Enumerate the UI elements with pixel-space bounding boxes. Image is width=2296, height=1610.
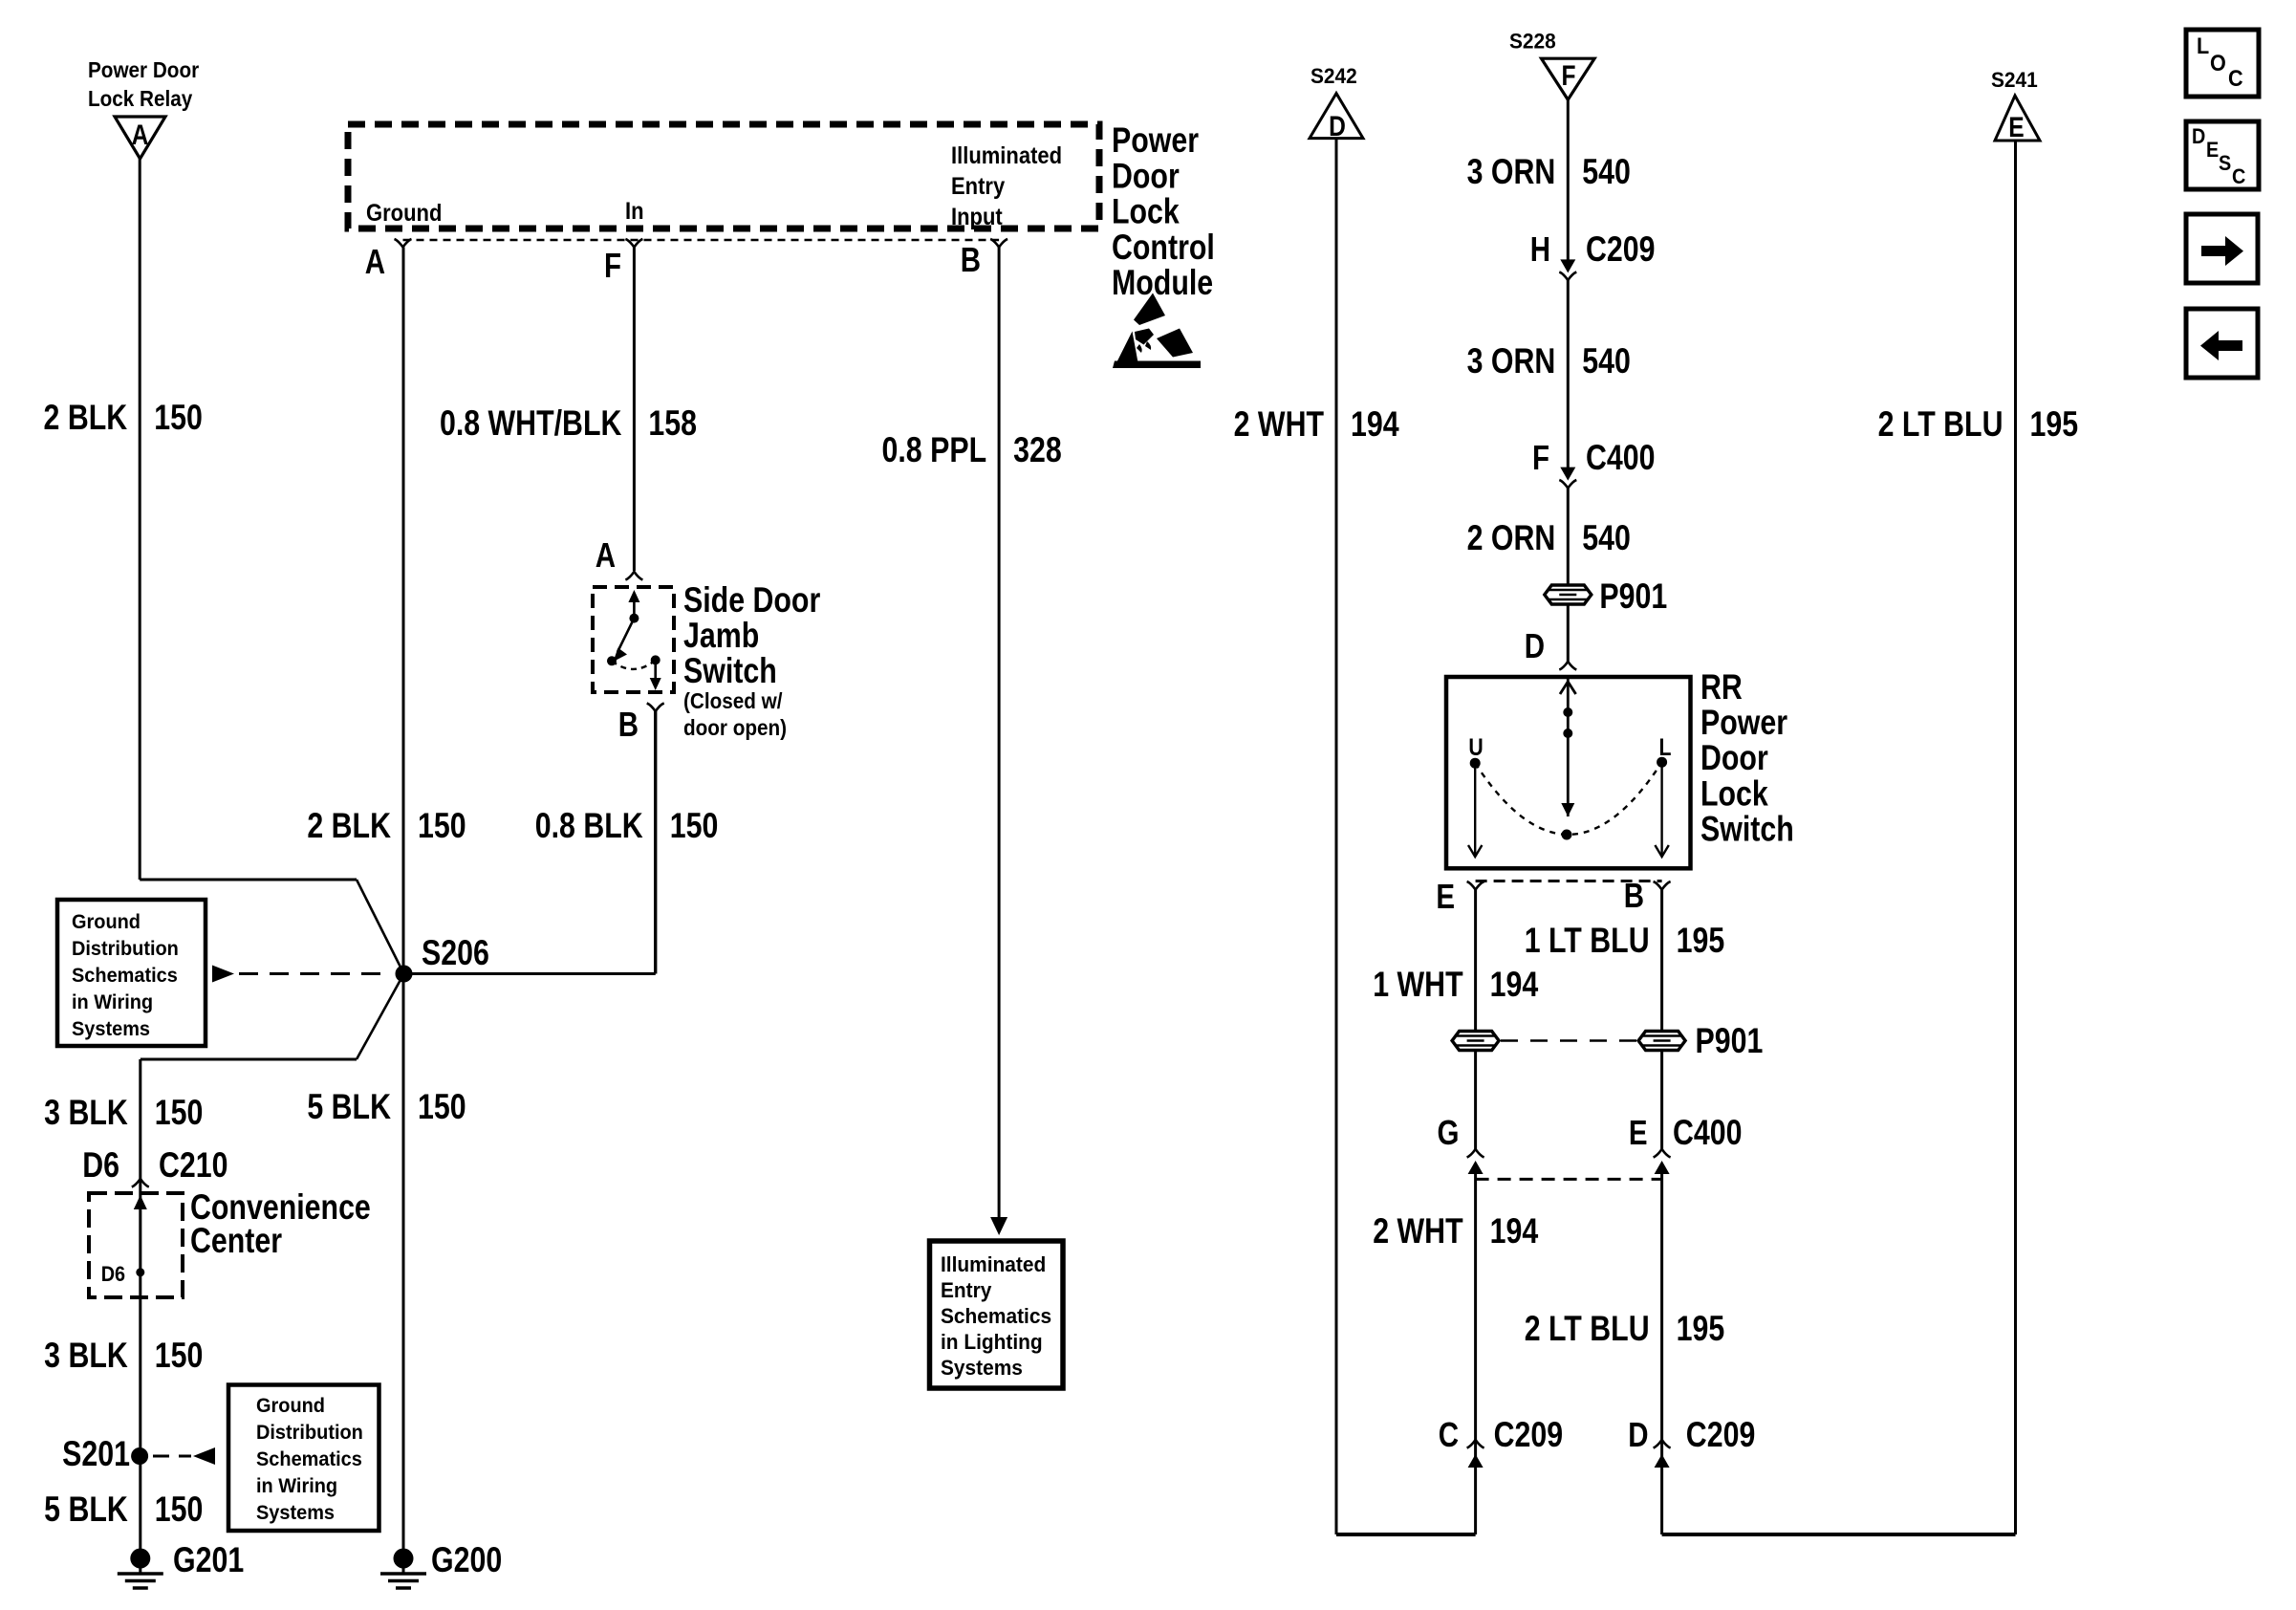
wire 2 BLK 150 from relay — [139, 159, 141, 880]
svg-text:150: 150 — [155, 1093, 204, 1133]
svg-text:194: 194 — [1490, 965, 1539, 1005]
svg-text:D: D — [1329, 110, 1346, 142]
switch name RR Power Door Lock Switch — [1700, 667, 1794, 849]
svg-text:S: S — [2219, 152, 2231, 175]
svg-text:Distribution: Distribution — [72, 938, 179, 961]
module name Power Door Lock Control Module — [1112, 120, 1215, 303]
convenience center internal wire and D6 dot — [101, 1195, 147, 1286]
svg-text:Lock: Lock — [1700, 773, 1768, 814]
svg-text:D: D — [2192, 125, 2205, 148]
svg-text:Schematics: Schematics — [72, 965, 178, 988]
bus S242 to E wire — [1336, 1533, 1476, 1536]
svg-text:Control: Control — [1112, 228, 1215, 268]
svg-text:Distribution: Distribution — [256, 1422, 363, 1445]
module pin F — [604, 239, 642, 285]
svg-text:150: 150 — [155, 1336, 204, 1376]
label 2 LT BLU 195 (B wire) — [1525, 1309, 1725, 1349]
jamb switch contacts and arm — [607, 590, 661, 690]
grommet P901 (S228 wire) — [1545, 577, 1667, 617]
LOC box — [2186, 30, 2259, 97]
svg-text:P901: P901 — [1696, 1021, 1764, 1061]
svg-text:S241: S241 — [1991, 69, 2038, 93]
svg-text:3 BLK: 3 BLK — [44, 1336, 128, 1376]
svg-text:C400: C400 — [1673, 1113, 1743, 1153]
module label Illuminated Entry Input — [951, 142, 1062, 230]
switch pin D — [1525, 626, 1577, 669]
wire P901 to switch pin D — [1567, 605, 1570, 663]
svg-text:1 LT BLU: 1 LT BLU — [1525, 921, 1650, 961]
svg-text:F: F — [1532, 438, 1549, 476]
svg-text:C: C — [2232, 165, 2245, 188]
svg-text:Schematics: Schematics — [941, 1305, 1051, 1329]
svg-text:(Closed w/: (Closed w/ — [683, 688, 782, 713]
label 2 LT BLU 195 (S241) — [1878, 404, 2079, 445]
ground G201 — [118, 1540, 244, 1588]
label 3 BLK 150 — [44, 1093, 203, 1133]
svg-text:D6: D6 — [101, 1263, 125, 1286]
side door jamb switch box — [593, 587, 674, 692]
svg-text:E: E — [1436, 877, 1455, 915]
svg-text:Ground: Ground — [366, 200, 442, 227]
svg-text:B: B — [618, 705, 639, 743]
svg-text:In: In — [625, 198, 644, 225]
switch pin E — [1436, 877, 1484, 915]
splice S241 triangle E — [1991, 69, 2040, 143]
switch contact L — [1655, 733, 1671, 857]
module pin B — [961, 239, 1007, 279]
svg-text:Door: Door — [1112, 156, 1180, 196]
svg-text:Power Door: Power Door — [88, 57, 200, 82]
label 0.8 BLK 150 — [535, 806, 719, 846]
inline connector C209 pins C / D — [1439, 1415, 1563, 1468]
wire jamb switch B to S206 (0.8 BLK 150) — [654, 711, 657, 974]
wire module pin B down (0.8 PPL 328) — [990, 248, 1007, 1236]
svg-text:S228: S228 — [1509, 30, 1556, 54]
svg-text:G201: G201 — [173, 1540, 244, 1580]
svg-text:Door: Door — [1700, 738, 1768, 778]
svg-text:150: 150 — [418, 1087, 466, 1127]
jamb switch pin B — [618, 704, 664, 744]
svg-text:Illuminated: Illuminated — [941, 1253, 1046, 1277]
jamb switch note (Closed w/ door open) — [683, 688, 787, 740]
svg-text:Power: Power — [1112, 120, 1199, 161]
svg-text:P901: P901 — [1599, 577, 1667, 617]
svg-text:1 WHT: 1 WHT — [1373, 965, 1463, 1005]
svg-text:5 BLK: 5 BLK — [44, 1490, 128, 1530]
power door lock control module box — [348, 124, 1099, 228]
label 0.8 WHT/BLK 158 — [440, 403, 697, 444]
label 5 BLK 150 (G201 leg) — [44, 1490, 203, 1530]
svg-text:195: 195 — [1677, 921, 1725, 961]
svg-text:150: 150 — [155, 1490, 204, 1530]
svg-text:door open): door open) — [683, 715, 787, 740]
svg-text:150: 150 — [418, 806, 466, 846]
wire module pin F to jamb switch (0.8 WHT/BLK 158) — [633, 248, 636, 572]
dashed pointer S201 to box — [153, 1447, 215, 1465]
label 3 BLK 150 (below convenience center) — [44, 1336, 203, 1376]
wire S228 down (3 ORN 540) — [1567, 99, 1570, 260]
ground G200 — [380, 1540, 502, 1588]
svg-text:Center: Center — [190, 1221, 282, 1261]
svg-text:D: D — [1628, 1415, 1648, 1453]
dashed line between P901 grommets — [1501, 1021, 1763, 1061]
svg-text:A: A — [132, 119, 149, 151]
switch pin B — [1624, 876, 1671, 914]
svg-text:G200: G200 — [431, 1540, 502, 1580]
svg-text:158: 158 — [648, 403, 697, 444]
svg-text:2 LT BLU: 2 LT BLU — [1878, 404, 2004, 445]
label 3 ORN 540 (second) — [1467, 341, 1631, 381]
wire (2 ORN 540) to P901 — [1567, 489, 1570, 585]
svg-text:195: 195 — [1677, 1309, 1725, 1349]
node S201 — [62, 1434, 148, 1474]
wire E to C400 — [1474, 1051, 1477, 1149]
svg-text:C400: C400 — [1586, 438, 1656, 478]
svg-text:S242: S242 — [1310, 65, 1357, 89]
svg-text:F: F — [1561, 59, 1575, 92]
svg-text:Switch: Switch — [683, 651, 777, 691]
svg-text:E: E — [2008, 111, 2024, 143]
svg-text:F: F — [604, 246, 621, 284]
svg-text:in Lighting: in Lighting — [941, 1331, 1043, 1355]
dashed pointer box to S206 — [212, 966, 391, 983]
svg-text:Lock Relay: Lock Relay — [88, 86, 193, 111]
wire (3 ORN 540) to C400 — [1567, 280, 1570, 469]
module pin label Ground — [366, 200, 442, 227]
svg-text:Systems: Systems — [256, 1502, 335, 1525]
connector C210 pin D6 — [82, 1145, 227, 1186]
grommet P901 (E wire) — [1452, 1032, 1499, 1051]
label 2 WHT 194 (E wire) — [1373, 1211, 1538, 1251]
svg-text:A: A — [365, 242, 385, 280]
label 5 BLK 150 (A wire lower) — [307, 1087, 466, 1127]
label 2 WHT 194 — [1234, 404, 1399, 445]
back arrow box — [2186, 309, 2258, 378]
svg-text:194: 194 — [1351, 404, 1399, 445]
svg-text:in Wiring: in Wiring — [256, 1475, 337, 1498]
convenience center name — [190, 1187, 371, 1261]
svg-text:C: C — [2228, 65, 2243, 91]
grommet P901 (B wire) — [1638, 1032, 1685, 1051]
svg-text:E: E — [2206, 139, 2219, 162]
switch connector dashed line — [1476, 880, 1662, 882]
svg-text:in Wiring: in Wiring — [72, 991, 153, 1014]
svg-text:Jamb: Jamb — [683, 616, 759, 656]
svg-text:Side Door: Side Door — [683, 580, 820, 620]
svg-text:150: 150 — [154, 398, 203, 438]
module pin A — [365, 239, 412, 281]
svg-text:Ground: Ground — [72, 911, 141, 934]
module connector dashed line — [403, 239, 1000, 242]
label 3 ORN 540 — [1467, 152, 1631, 192]
label 0.8 PPL 328 — [882, 430, 1062, 470]
switch contact U — [1468, 733, 1484, 857]
wire switch E down (1 WHT 194) — [1474, 890, 1477, 1032]
svg-text:C: C — [1439, 1415, 1459, 1453]
ground distribution schematics box (upper) — [57, 900, 206, 1046]
svg-text:C209: C209 — [1686, 1415, 1756, 1455]
svg-text:0.8 BLK: 0.8 BLK — [535, 806, 643, 846]
wire module pin A to G200 (2 BLK / 5 BLK 150) — [402, 248, 405, 1558]
svg-text:2 LT BLU: 2 LT BLU — [1525, 1309, 1650, 1349]
svg-text:Systems: Systems — [941, 1357, 1023, 1381]
svg-text:D: D — [1525, 626, 1545, 664]
module pin label In — [625, 198, 644, 225]
wire S206 branch to 3 BLK leg — [141, 974, 404, 1457]
svg-text:L: L — [2197, 33, 2209, 58]
svg-text:3 BLK: 3 BLK — [44, 1093, 128, 1133]
svg-text:H: H — [1530, 229, 1550, 268]
power door lock relay triangle A — [115, 117, 165, 159]
svg-text:540: 540 — [1582, 341, 1631, 381]
svg-text:Power: Power — [1700, 703, 1787, 743]
svg-text:2 ORN: 2 ORN — [1467, 518, 1556, 558]
node S206 — [396, 933, 489, 982]
switch dashed arc — [1475, 762, 1661, 835]
svg-text:S201: S201 — [62, 1434, 130, 1474]
convenience center box — [89, 1193, 183, 1297]
ESD sensitive device symbol — [1113, 294, 1201, 369]
svg-text:S206: S206 — [422, 933, 489, 973]
dashed line under C400 — [1476, 1178, 1662, 1181]
svg-text:Entry: Entry — [951, 173, 1005, 200]
svg-text:328: 328 — [1013, 430, 1062, 470]
svg-text:540: 540 — [1582, 152, 1631, 192]
svg-text:A: A — [596, 535, 616, 574]
jamb switch pin A — [596, 535, 643, 579]
bus D wire to S241 — [1662, 1533, 2016, 1536]
DESC box — [2186, 121, 2259, 189]
svg-text:2 BLK: 2 BLK — [307, 806, 391, 846]
svg-text:D6: D6 — [82, 1145, 119, 1186]
svg-text:Module: Module — [1112, 263, 1213, 303]
svg-text:2 WHT: 2 WHT — [1373, 1211, 1463, 1251]
RR power door lock switch box — [1446, 677, 1691, 868]
svg-text:Entry: Entry — [941, 1279, 991, 1303]
svg-text:Ground: Ground — [256, 1395, 325, 1418]
splice S228 triangle F — [1509, 30, 1594, 99]
forward arrow box — [2186, 214, 2258, 283]
wire S201 to G201 — [139, 1456, 141, 1557]
svg-text:RR: RR — [1700, 667, 1743, 707]
wire B to C400 — [1660, 1051, 1663, 1149]
switch internal common line with arrows and dots — [1560, 677, 1576, 840]
wire S241 down (2 LT BLU 195) — [2014, 141, 2017, 1534]
label 2 ORN 540 — [1467, 518, 1631, 558]
svg-text:3 ORN: 3 ORN — [1467, 152, 1556, 192]
svg-text:Switch: Switch — [1700, 810, 1794, 850]
svg-text:C209: C209 — [1586, 229, 1656, 270]
power door lock relay label — [88, 57, 200, 111]
label 2 BLK 150 — [44, 398, 203, 438]
wire S242 down to bus (2 WHT 194) — [1335, 139, 1338, 1534]
jamb switch name — [683, 580, 820, 691]
label 1 LT BLU 195 — [1525, 921, 1725, 961]
wire switch B down (1 LT BLU 195) — [1660, 890, 1663, 1032]
svg-text:L: L — [1659, 733, 1672, 760]
svg-text:Lock: Lock — [1112, 192, 1180, 232]
svg-text:Illuminated: Illuminated — [951, 142, 1062, 169]
svg-text:G: G — [1438, 1113, 1460, 1151]
svg-text:0.8 PPL: 0.8 PPL — [882, 430, 987, 470]
svg-text:U: U — [1468, 733, 1483, 760]
svg-text:5 BLK: 5 BLK — [307, 1087, 391, 1127]
inline connector C400 pins G / E — [1438, 1113, 1484, 1534]
svg-text:Schematics: Schematics — [256, 1448, 362, 1471]
svg-text:2 WHT: 2 WHT — [1234, 404, 1325, 445]
svg-text:540: 540 — [1582, 518, 1631, 558]
inline connector C400 pin F — [1532, 438, 1656, 488]
label 1 WHT 194 — [1373, 965, 1538, 1005]
svg-text:O: O — [2210, 50, 2226, 76]
svg-text:194: 194 — [1490, 1211, 1539, 1251]
svg-text:0.8 WHT/BLK: 0.8 WHT/BLK — [440, 403, 622, 444]
svg-text:C209: C209 — [1494, 1415, 1564, 1455]
illuminated entry schematics box — [930, 1241, 1064, 1388]
svg-text:Input: Input — [951, 204, 1003, 230]
svg-text:2 BLK: 2 BLK — [44, 398, 128, 438]
svg-text:E: E — [1629, 1113, 1648, 1151]
svg-text:150: 150 — [670, 806, 719, 846]
splice S242 triangle D — [1310, 65, 1363, 142]
svg-text:Systems: Systems — [72, 1018, 150, 1041]
svg-text:B: B — [1624, 876, 1644, 914]
svg-text:C210: C210 — [159, 1145, 228, 1186]
wire relay to S206 — [140, 880, 403, 974]
svg-text:B: B — [961, 240, 981, 278]
label 2 BLK 150 (A wire) — [307, 806, 466, 846]
inline connector C209 pin H — [1530, 229, 1656, 280]
svg-text:195: 195 — [2030, 404, 2079, 445]
wire S206 to jamb B wire — [404, 972, 656, 975]
svg-text:3 ORN: 3 ORN — [1467, 341, 1556, 381]
ground distribution schematics box (lower) — [228, 1385, 379, 1532]
